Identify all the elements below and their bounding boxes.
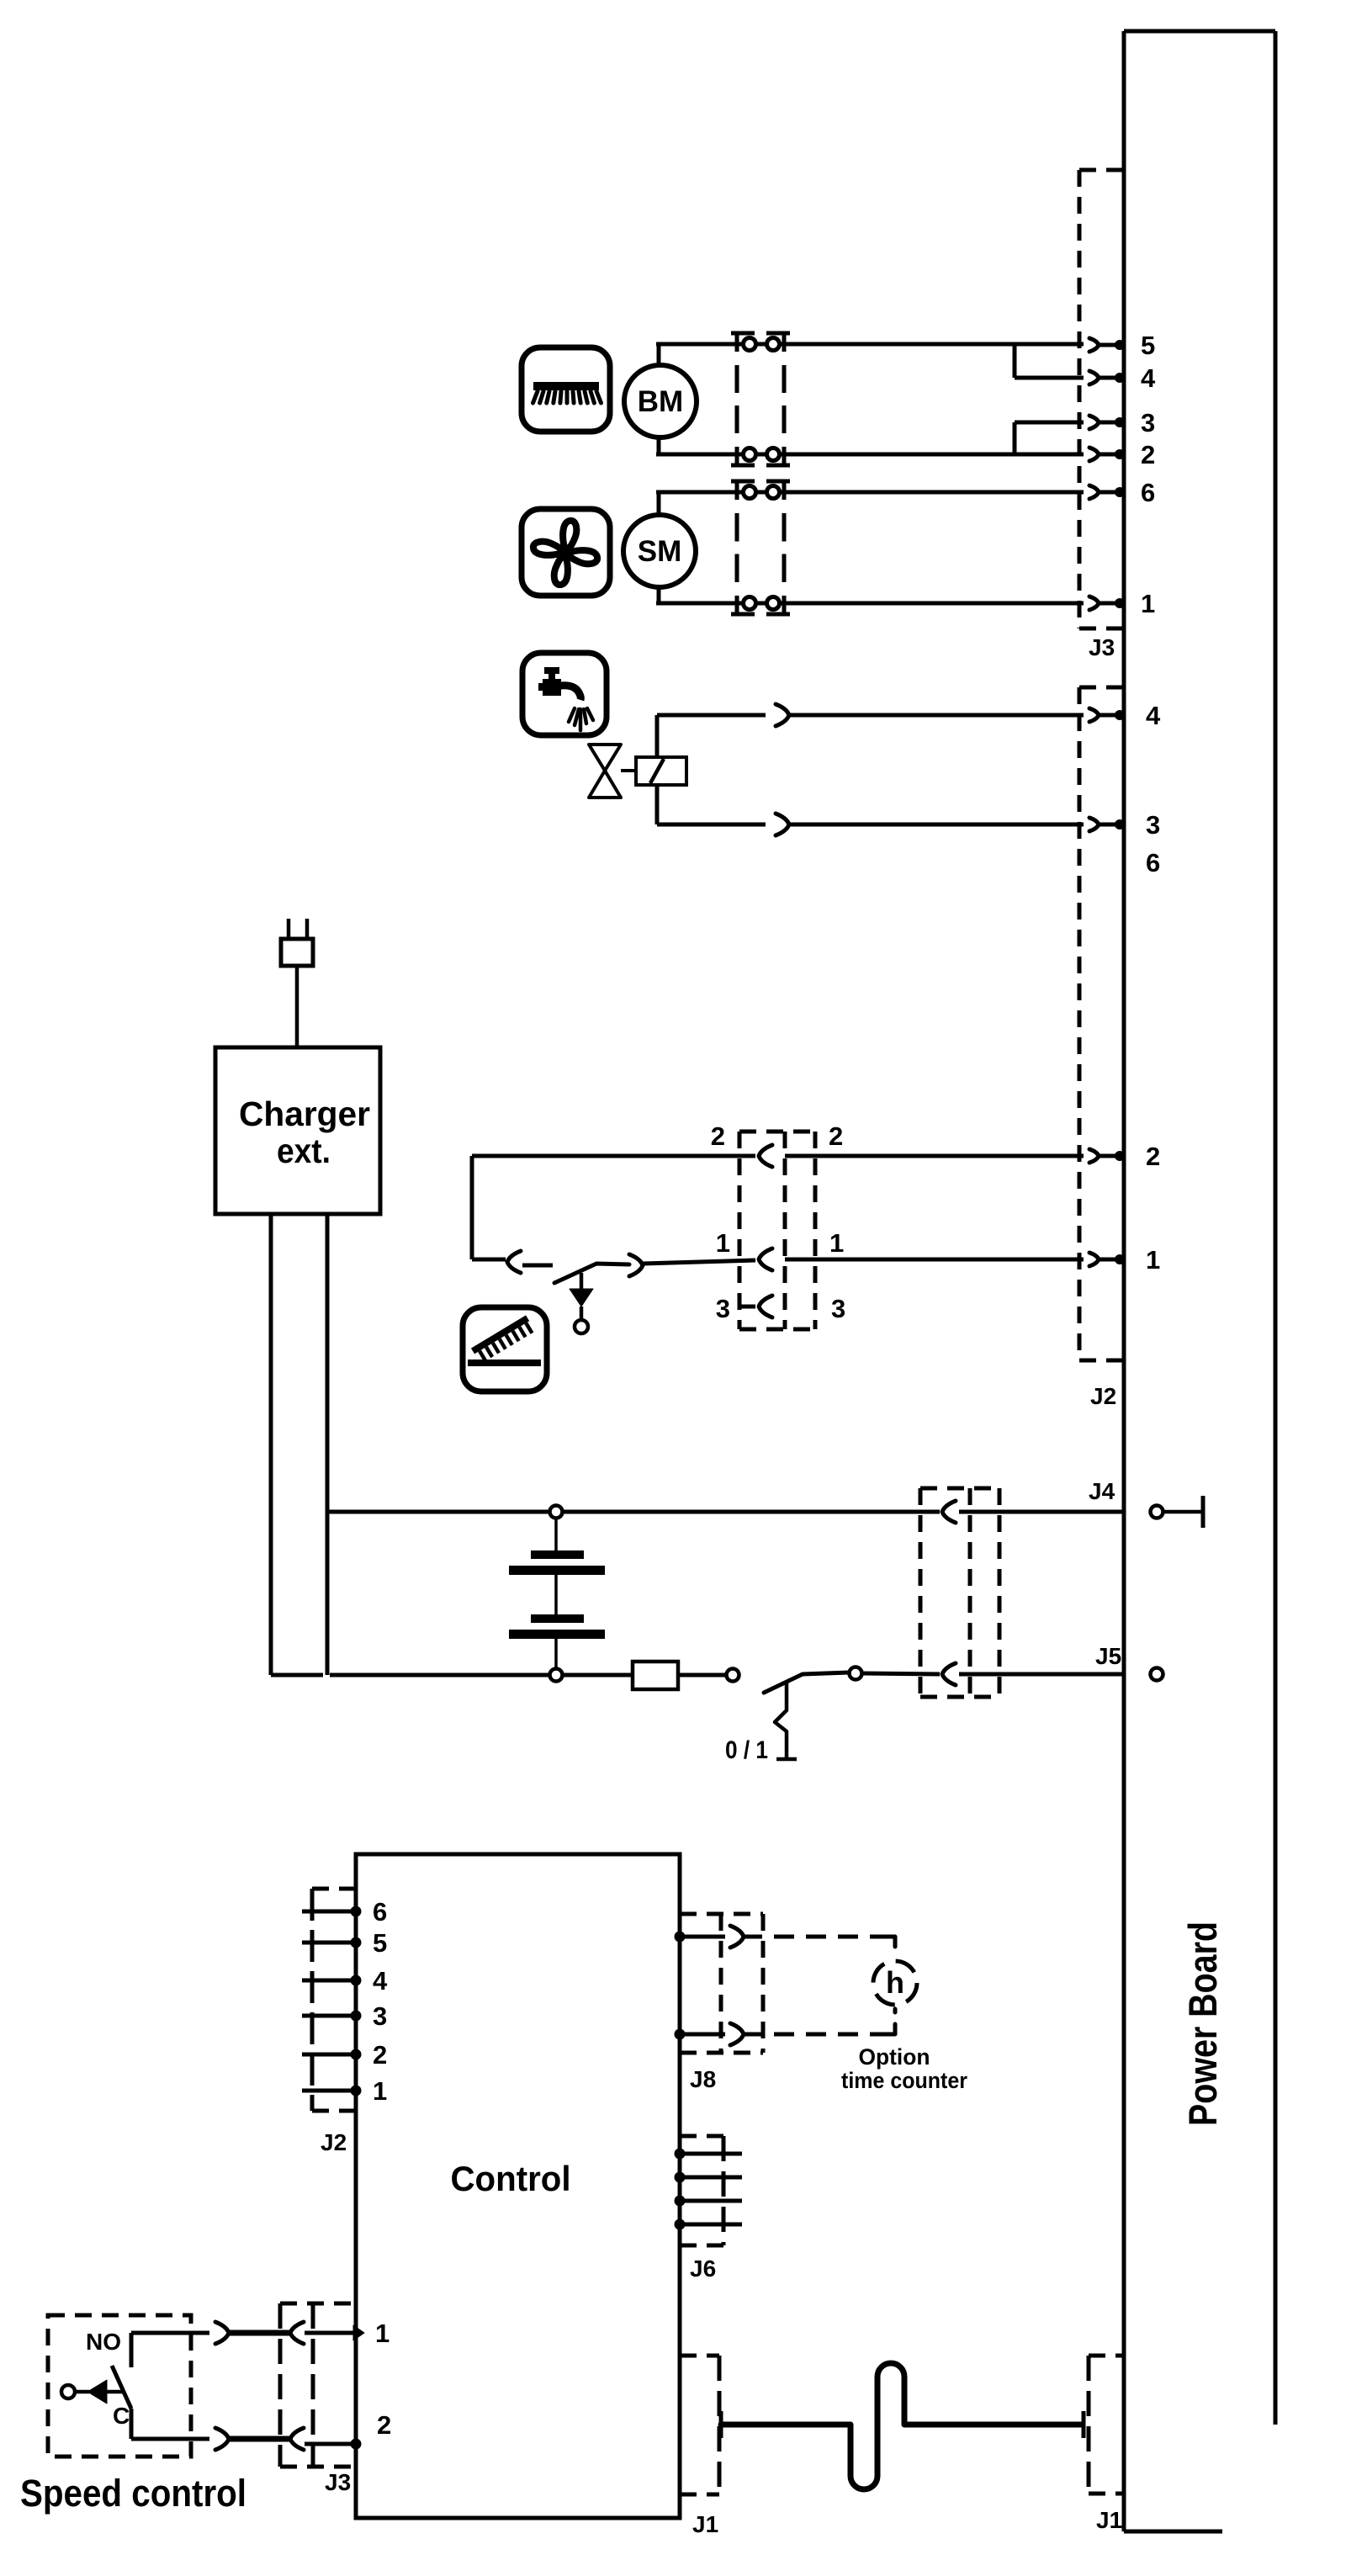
J5 terminal inside board (1151, 1668, 1163, 1681)
wire J4 row (327, 1510, 550, 1514)
speed switch common (61, 2380, 124, 2404)
svg-text:5: 5 (1141, 331, 1155, 360)
speed switch blade (112, 2366, 131, 2409)
svg-text:2: 2 (377, 2410, 391, 2440)
wire SM top (657, 492, 661, 515)
svg-text:1: 1 (829, 1228, 844, 1258)
J3 pin 4 (1089, 371, 1099, 384)
brush lift icon (463, 1307, 547, 1391)
wire J5 row (330, 1673, 550, 1678)
svg-text:3: 3 (373, 2001, 387, 2031)
control J3 pin2 wire (215, 2428, 229, 2450)
svg-text:J5: J5 (1095, 1643, 1121, 1669)
wire fuse to switch (678, 1673, 727, 1678)
fuse (633, 1662, 678, 1689)
svg-text:2: 2 (711, 1121, 725, 1151)
C contact (130, 2409, 134, 2439)
control J2 pin 6 (302, 1910, 356, 1914)
svg-text:J3: J3 (325, 2469, 351, 2495)
svg-text:h: h (886, 1965, 904, 2000)
brush switch left contact (507, 1251, 521, 1273)
motor BM (624, 365, 697, 437)
wire to J2 pin3 (789, 823, 1084, 827)
wire switch row right (643, 1260, 755, 1264)
battery connector fork J5 (942, 1663, 956, 1685)
wire BM to J3 pin5 (784, 342, 1084, 347)
wire BM bottom (657, 437, 661, 454)
svg-text:J8: J8 (690, 2066, 716, 2092)
wire SM bottom (657, 587, 661, 603)
mid connector fork 3 (759, 1296, 772, 1317)
svg-text:6: 6 (373, 1897, 387, 1927)
brush switch blade (554, 1264, 629, 1283)
control J2 pin 3 (302, 2014, 356, 2018)
wire jog pin2 to pin3 (1013, 422, 1017, 454)
svg-text:2: 2 (829, 1121, 843, 1151)
control J3 pin1 wire (215, 2322, 229, 2344)
svg-text:1: 1 (1141, 589, 1155, 618)
J3 pin 3 (1089, 416, 1099, 429)
mid connector fork 2 (759, 1145, 772, 1167)
wire BM to J3 pin2 (784, 453, 1084, 457)
svg-text:J6: J6 (690, 2255, 716, 2282)
svg-text:3: 3 (1141, 408, 1155, 437)
control J2 pin 5 (302, 1941, 356, 1945)
mid connector fork 1 (759, 1248, 772, 1270)
svg-text:5: 5 (373, 1928, 387, 1958)
valve (two triangles) (589, 745, 621, 798)
svg-text:ext.: ext. (277, 1132, 331, 1170)
svg-text:Option: Option (859, 2044, 930, 2070)
brush switch actuator (570, 1273, 593, 1333)
svg-text:time counter: time counter (841, 2068, 967, 2093)
svg-text:4: 4 (373, 1966, 388, 1996)
svg-text:J3: J3 (1089, 634, 1115, 660)
svg-text:Charger: Charger (239, 1095, 370, 1133)
mid connector dashed box (739, 1132, 815, 1329)
svg-text:1: 1 (1146, 1245, 1160, 1275)
battery top node (550, 1506, 563, 1519)
svg-text:Control: Control (451, 2159, 571, 2198)
svg-text:2: 2 (373, 2040, 387, 2070)
svg-text:Power Board: Power Board (1180, 1921, 1225, 2126)
control J2 pin 4 (302, 1979, 356, 1983)
J2 pin 3 (1089, 818, 1099, 831)
time counter dashed wires (742, 1937, 895, 2034)
battery cells (509, 1518, 605, 1669)
mid connector stub 3 (739, 1305, 755, 1309)
wire SM to J3 pin1 (784, 602, 1084, 606)
wire valve bottom (655, 785, 660, 824)
svg-text:3: 3 (716, 1294, 730, 1323)
control box (356, 1854, 680, 2518)
connector J3 (power board) dashed box (1079, 170, 1124, 628)
wire switch to connector (862, 1673, 940, 1674)
svg-text:J4: J4 (1089, 1478, 1115, 1504)
control J2 pin 2 (302, 2053, 356, 2057)
NO contact (130, 2333, 134, 2367)
power board outline (1124, 31, 1275, 2531)
inline connector bottom (776, 814, 789, 835)
svg-text:1: 1 (716, 1228, 730, 1258)
solenoid coil (621, 757, 686, 785)
svg-text:4: 4 (1141, 363, 1156, 393)
wire J4 row cont (562, 1510, 940, 1514)
speed control wires (131, 2331, 209, 2335)
charger ext box (215, 1047, 380, 1214)
wire J5 row left (271, 1673, 323, 1678)
battery connector fork J4 (942, 1501, 956, 1523)
connector J2 (power board) dashed box (1079, 687, 1124, 1360)
connector SM (inline pair) (731, 481, 790, 614)
wire SM to J3 pin6 (784, 490, 1084, 495)
J2 pin 4 (1089, 708, 1099, 722)
control J1 connector box (680, 2356, 719, 2494)
J8 pin top (675, 1932, 686, 1943)
control J8 connector box (680, 1914, 763, 2053)
power board J1 connector box (1089, 2356, 1124, 2494)
motor SM (623, 515, 696, 587)
svg-text:1: 1 (375, 2319, 389, 2348)
wire pin1 to J2 (785, 1258, 1084, 1262)
0/1 switch actuator (775, 1683, 797, 1759)
J3 pin 6 (1089, 485, 1099, 499)
J4 terminal inside board (1151, 1496, 1204, 1528)
svg-text:0 / 1: 0 / 1 (725, 1736, 768, 1764)
J3 pin 1 (1089, 596, 1099, 610)
control J6 pin 1 (675, 2149, 686, 2160)
control J6 pin 2 (675, 2172, 686, 2183)
inline connector top (776, 704, 789, 726)
svg-text:J1: J1 (1096, 2507, 1122, 2533)
svg-text:2: 2 (1141, 440, 1155, 469)
charger right wire (326, 1214, 330, 1675)
svg-text:3: 3 (831, 1294, 845, 1323)
charger left wire (269, 1214, 273, 1675)
svg-text:6: 6 (1146, 848, 1160, 877)
wire BM top (657, 344, 661, 365)
wire jog pin5 to pin4 (1013, 344, 1017, 378)
svg-text:C: C (113, 2403, 130, 2429)
J8 pin bottom (675, 2029, 686, 2040)
control J2 pin 1 (302, 2089, 356, 2093)
svg-text:NO: NO (86, 2329, 121, 2355)
0/1 switch (727, 1667, 862, 1693)
wire to fuse (562, 1673, 633, 1678)
wire J4 to board (959, 1510, 1124, 1514)
brush icon (522, 347, 610, 432)
wire valve top (655, 715, 660, 757)
svg-text:Speed control: Speed control (20, 2472, 246, 2515)
wire pin2 to J2 (785, 1154, 1084, 1158)
control J6 connector box (680, 2136, 723, 2245)
fan icon (522, 509, 610, 596)
svg-text:4: 4 (1146, 701, 1161, 730)
svg-text:J2: J2 (321, 2129, 347, 2155)
svg-text:3: 3 (1146, 810, 1160, 840)
J3 pin 2 (1089, 448, 1099, 461)
control J6 pin 4 (675, 2219, 686, 2230)
wire to J2 pin4 (789, 713, 1084, 718)
svg-text:BM: BM (638, 385, 683, 418)
time counter h meter (873, 1961, 917, 2005)
J3 pin 5 (1089, 338, 1099, 352)
connector BM (inline pair) (731, 333, 790, 465)
svg-text:1: 1 (373, 2076, 387, 2106)
wire J5 to board (959, 1672, 1124, 1677)
svg-text:J2: J2 (1090, 1383, 1116, 1409)
control J3 connector box (280, 2303, 356, 2467)
brush switch right contact (629, 1254, 643, 1276)
water tap icon (522, 653, 607, 735)
battery connector dashed box (920, 1488, 999, 1697)
J2 pin 2 (1089, 1149, 1099, 1163)
wire switch row left (472, 1258, 506, 1262)
svg-text:6: 6 (1141, 478, 1155, 507)
mains plug (281, 919, 313, 1047)
control J2 connector box (312, 1889, 356, 2111)
left loop vertical (470, 1156, 474, 1259)
battery bottom node (550, 1669, 563, 1682)
svg-text:J1: J1 (692, 2511, 718, 2537)
speed control dashed box (48, 2315, 191, 2457)
wire pin2 row (472, 1154, 755, 1158)
control J6 pin 3 (675, 2196, 686, 2207)
svg-text:SM: SM (638, 535, 682, 568)
svg-text:2: 2 (1146, 1142, 1160, 1171)
J2 pin 1 (1089, 1253, 1099, 1266)
power cable (wavy) (721, 2363, 1084, 2489)
